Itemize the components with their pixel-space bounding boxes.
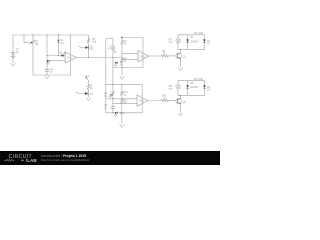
node flag (lower diode net): [85, 74, 89, 80]
resistor R7: [87, 84, 94, 90]
wire Q1 collector: [180, 50, 182, 53]
wire lower ground drop: [121, 113, 123, 124]
wire mid column corner: [106, 84, 113, 86]
photoresistor LDR2: [104, 91, 114, 98]
diode D6: [203, 85, 211, 91]
junction (mid column corner): [105, 84, 106, 85]
resistor R6: [161, 50, 168, 57]
svg-text:D10: D10: [120, 112, 125, 115]
junctions on opamp3 minus input net: [112, 98, 113, 99]
ground (lower): [120, 124, 125, 127]
svg-text:OA2: OA2: [140, 55, 145, 58]
narrow box left vertical: [105, 39, 107, 85]
diode D1 column: [58, 35, 60, 56]
resistor R3 column: [88, 35, 90, 58]
wire Q2 collector: [180, 95, 182, 98]
diode D2 feed stub: [80, 47, 85, 49]
wire opamp1 power vertical: [70, 35, 72, 75]
diode D5 (flyback): [186, 78, 204, 89]
wire opamp3 plus input: [113, 103, 137, 105]
svg-text:1N: 1N: [90, 48, 93, 51]
wire opamp2 plus input: [122, 58, 138, 60]
diode D2: [85, 45, 93, 51]
junction (VCC node): [121, 37, 122, 38]
junctions on bottom net: [112, 112, 113, 113]
diode D4: [203, 39, 211, 45]
svg-text:LAB: LAB: [27, 158, 37, 163]
wire top rail: [13, 34, 89, 36]
wire lower resistor column: [87, 80, 89, 97]
wire opamp1 minus input: [47, 55, 65, 57]
svg-text:1N: 1N: [207, 88, 210, 91]
svg-text:D5 1N40: D5 1N40: [194, 78, 204, 81]
svg-text:D3 1N40: D3 1N40: [194, 32, 204, 35]
svg-text:1N4007: 1N4007: [190, 40, 199, 43]
vcc arrow node: [121, 36, 123, 38]
footer credits: [41, 154, 90, 162]
wire VCC chain column: [121, 38, 123, 75]
junction (x47 column / input wire): [46, 55, 47, 56]
resistor R5: [121, 57, 128, 63]
lamp L1: [107, 46, 116, 53]
motor block 1 frame: [178, 35, 204, 50]
wire opamp3 power vertical: [141, 85, 143, 113]
op-amp OA3: [137, 95, 148, 106]
op-amp OA2: [138, 50, 149, 62]
svg-text:1N4007: 1N4007: [190, 86, 199, 89]
narrow box top: [106, 38, 113, 40]
transistor Q1: [176, 53, 187, 59]
motor M1: [169, 39, 181, 45]
svg-text:1N: 1N: [60, 42, 63, 45]
wire opamp2 vcc top: [122, 37, 143, 39]
svg-text:OA3: OA3: [139, 100, 144, 103]
wire opamp1 plus input: [50, 59, 65, 61]
motor M2: [169, 85, 181, 91]
wire ldr chain: [112, 85, 114, 113]
transistor Q2: [176, 98, 187, 104]
svg-text:1N: 1N: [120, 64, 123, 67]
diode D1: [58, 39, 65, 45]
node junction dots on rail: [23, 34, 24, 35]
junctions on output net: [88, 57, 89, 58]
junction (ldr chain top): [112, 84, 113, 85]
ground (C1 node): [45, 76, 50, 79]
CircuitLab logo: [4, 154, 37, 163]
wire vee bottom run: [113, 67, 143, 69]
capacitor C1: [45, 68, 54, 74]
footer bar: [0, 151, 220, 165]
photo sensor arrows (input2): [47, 60, 50, 65]
wire left chain lower: [105, 85, 107, 113]
wire Q2 emitter: [180, 104, 182, 113]
resistor R3: [87, 38, 97, 44]
resistor R11: [121, 99, 129, 105]
ground (battery): [11, 63, 16, 66]
wire opamp2 power vertical: [142, 38, 144, 68]
wire Q1 emitter: [180, 58, 182, 67]
wire opamp2 output: [149, 55, 176, 57]
diode D7 feed stub: [78, 93, 85, 95]
wire opamp3 output: [148, 99, 176, 101]
wire opamp2 minus input: [122, 53, 138, 55]
wire opamp1 output run: [77, 57, 122, 59]
wire opamp3 vcc top: [113, 84, 142, 86]
wire pot bottom to ground run: [33, 48, 71, 75]
capacitor C2: [104, 104, 115, 110]
ground (Q1): [178, 68, 183, 71]
wire vee bottom run 2: [106, 112, 142, 114]
svg-text:out: out: [86, 74, 90, 77]
battery V1: [11, 48, 20, 57]
diode D7: [85, 92, 94, 96]
svg-text:OA1: OA1: [67, 57, 72, 60]
wire right chain lower: [121, 85, 123, 113]
svg-text:1N: 1N: [207, 42, 210, 45]
lamp column: [112, 39, 114, 85]
ground (lower chain): [86, 98, 91, 101]
junction (Q1 collector / motor rail): [180, 49, 181, 50]
potentiometer R2: [29, 35, 39, 48]
wire battery column: [12, 35, 14, 63]
photo sensor arrows (lower): [114, 112, 125, 117]
diode D3 (flyback): [186, 32, 204, 44]
junction (Q2 collector / motor rail): [180, 95, 181, 96]
svg-text:mot: mot: [169, 41, 173, 44]
svg-text:mot: mot: [169, 87, 173, 90]
photo sensor arrows (divider): [114, 61, 123, 67]
wire opamp3 minus input: [106, 98, 137, 100]
resistor R8: [161, 95, 168, 102]
junction (ground net / C1): [46, 74, 47, 75]
ground (Q2): [178, 113, 183, 116]
junction (VEE net): [121, 67, 122, 68]
junction (D1 / input net): [58, 55, 59, 56]
ground (vcc chain): [120, 76, 125, 79]
resistor R4: [121, 40, 128, 46]
svg-text:http://circuitlab.com/cnmaa6g5: http://circuitlab.com/cnmaa6g52s5w6/: [41, 158, 90, 162]
wire x47 column: [46, 35, 48, 75]
motor block 2 frame: [178, 81, 204, 96]
photo sensor arrows (input1): [59, 51, 66, 56]
svg-text:9V: 9V: [16, 51, 19, 54]
op-amp OA1: [65, 52, 77, 63]
resistor R10: [121, 91, 129, 97]
wire pot wiper branch: [24, 35, 29, 43]
junction (right chain top): [121, 84, 122, 85]
